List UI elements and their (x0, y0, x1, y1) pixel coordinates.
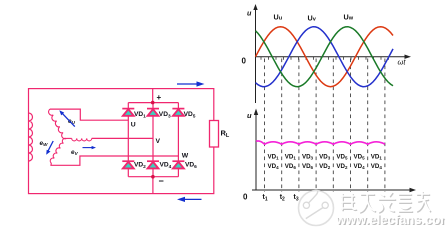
arrow return current bottom (177, 197, 202, 202)
svg-text:W: W (182, 153, 189, 160)
wire bridge column U (127, 103, 129, 177)
wire + rail to top (152, 89, 154, 103)
diode VD2 (122, 161, 134, 168)
wire W phase (51, 156, 178, 165)
svg-text:u: u (247, 111, 252, 120)
wire bridge column V (152, 103, 154, 177)
axis bottom chart x (252, 188, 416, 192)
wire + rail (128, 102, 178, 104)
watermark logo circle (299, 191, 334, 226)
wire U phase (50, 109, 128, 120)
axis top chart x (256, 55, 412, 59)
secondary winding eU (49, 109, 67, 139)
curve rectified output ripple (256, 141, 385, 144)
arrow eU current (59, 110, 75, 126)
svg-text:0: 0 (242, 57, 247, 66)
watermark chinese brand strokes (340, 191, 431, 213)
svg-text:V: V (156, 138, 161, 145)
node plus junction (151, 101, 155, 105)
arrow output current top (177, 81, 205, 86)
svg-text:ωt: ωt (398, 58, 407, 67)
arrow eV current (83, 146, 97, 149)
secondary winding eV (66, 137, 71, 139)
axis top chart y (253, 4, 257, 103)
wire bridge column W (177, 103, 179, 177)
transformer primary L1 (29, 113, 33, 161)
curve Uv blue (256, 27, 394, 87)
diode VD6 (172, 161, 184, 168)
node minus junction (151, 175, 155, 179)
curve Uu red (256, 27, 394, 87)
svg-text:u: u (247, 9, 252, 18)
diode VD5 (172, 109, 184, 116)
wire - rail to bottom (152, 177, 154, 194)
curve Uw green (256, 27, 394, 87)
svg-text:U: U (131, 122, 136, 129)
wire - rail (128, 176, 178, 178)
dashed commutation lines (264, 59, 266, 193)
axis bottom chart y (254, 109, 258, 191)
resistor RL (210, 121, 219, 148)
wire V phase (92, 137, 153, 139)
svg-text:www.elecfans.com: www.elecfans.com (335, 212, 446, 227)
secondary winding eW (50, 138, 66, 163)
diode VD4 (147, 161, 159, 168)
svg-text:0: 0 (243, 193, 248, 202)
axis ticks (260, 57, 262, 60)
diode VD3 (147, 109, 159, 116)
arrow eW current (46, 141, 53, 155)
wire outer rectangle (29, 89, 214, 194)
diode VD1 (122, 109, 134, 116)
svg-text:+: + (157, 93, 162, 102)
svg-text:−: − (159, 176, 164, 186)
